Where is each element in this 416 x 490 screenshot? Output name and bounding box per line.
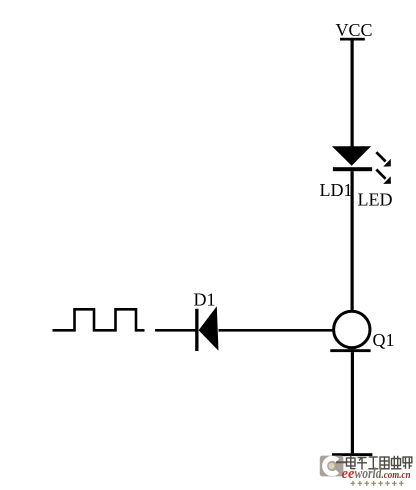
- diode D1 cathode bar: [195, 309, 198, 351]
- transistor Q1 circle: [334, 311, 370, 347]
- LED light emission arrow 1: [376, 152, 391, 166]
- watermark url eeworld.com.cn: [342, 466, 411, 482]
- watermark title glyph blocks: [347, 456, 412, 470]
- svg-text:D1: D1: [194, 290, 216, 310]
- svg-text:world: world: [355, 466, 383, 482]
- LED light emission arrow 2: [376, 170, 391, 184]
- wire LED cathode to Q1 collector: [351, 171, 354, 311]
- svg-text:LD1: LD1: [320, 180, 353, 200]
- wire VCC bar to LED anode: [351, 41, 354, 148]
- watermark eeworld logo square: [320, 456, 346, 477]
- svg-text:.com.cn: .com.cn: [382, 469, 411, 481]
- svg-text:ee: ee: [342, 466, 356, 482]
- wire signal to D1 cathode: [155, 329, 197, 332]
- LED LD1 cathode bar: [333, 167, 372, 171]
- square wave input signal: [53, 309, 145, 330]
- diode D1 anode triangle: [199, 306, 219, 351]
- ground bar: [332, 453, 372, 456]
- VCC rail T-bar: [340, 38, 365, 41]
- wire Q1 emitter to ground bar: [351, 352, 354, 453]
- watermark tagline glyph dashes: [351, 481, 404, 486]
- svg-text:LED: LED: [358, 190, 393, 210]
- svg-text:Q1: Q1: [373, 330, 395, 350]
- svg-text:VCC: VCC: [336, 20, 373, 40]
- LED LD1 anode triangle: [332, 146, 371, 166]
- transistor Q1 emitter bar: [330, 349, 370, 352]
- wire D1 anode to Q1 base: [219, 329, 334, 332]
